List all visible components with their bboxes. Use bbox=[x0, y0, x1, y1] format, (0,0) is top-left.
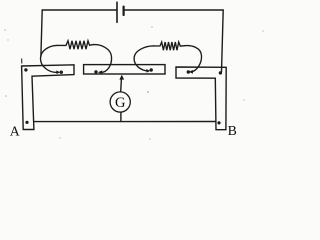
svg-text:A: A bbox=[10, 123, 20, 138]
svg-text:B: B bbox=[228, 123, 237, 138]
svg-text:G: G bbox=[115, 95, 126, 111]
